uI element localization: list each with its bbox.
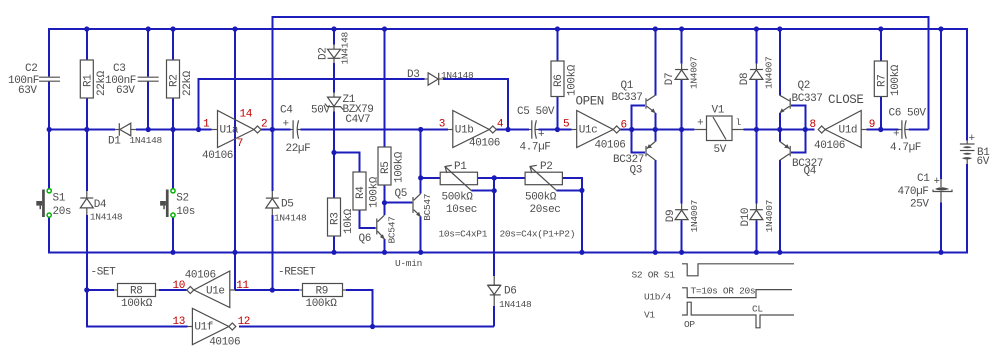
svg-text:S2 OR S1: S2 OR S1 xyxy=(632,270,676,281)
diode D1 xyxy=(108,123,163,147)
capacitor C2 xyxy=(8,63,60,97)
svg-text:OP: OP xyxy=(684,319,695,330)
wire P1 right to node xyxy=(478,177,526,179)
svg-text:100kΩ: 100kΩ xyxy=(306,298,338,310)
diode D4 xyxy=(80,191,123,223)
svg-text:1N4007: 1N4007 xyxy=(764,200,775,232)
transistor Q3 (BC327 PNP) xyxy=(613,142,655,177)
diode D8 xyxy=(739,57,775,89)
wire D6 bottom to U1f row xyxy=(493,306,495,327)
svg-text:D4: D4 xyxy=(94,199,107,211)
svg-text:R1: R1 xyxy=(83,74,95,87)
transistor Q2 (BC337 NPN mirrored) xyxy=(780,80,823,114)
op-amp U1b (40106 inverter) xyxy=(448,111,500,150)
wire top rail A xyxy=(272,17,928,130)
svg-text:22µF: 22µF xyxy=(286,143,311,155)
svg-text:CLOSE: CLOSE xyxy=(828,93,864,107)
svg-text:Q1: Q1 xyxy=(621,80,634,92)
svg-text:6V: 6V xyxy=(977,156,990,168)
svg-text:100kΩ: 100kΩ xyxy=(567,64,579,96)
node P1 right xyxy=(492,175,497,180)
node P1 left xyxy=(418,175,423,180)
svg-text:10s=C4xP1: 10s=C4xP1 xyxy=(439,229,488,240)
capacitor C1 (470uF polarized) xyxy=(898,173,953,211)
diode D6 xyxy=(488,276,532,310)
node RESET D5 xyxy=(270,287,275,292)
diode D7 xyxy=(664,57,700,89)
capacitor C5 (4.7uF polarized) xyxy=(517,106,555,154)
svg-text:5V: 5V xyxy=(714,144,727,156)
wire R9 to U1f out node xyxy=(346,290,373,327)
svg-text:P2: P2 xyxy=(540,161,552,173)
svg-text:+: + xyxy=(969,133,975,145)
svg-text:Q4: Q4 xyxy=(804,166,817,178)
wire R5 supply vertical xyxy=(384,29,386,147)
wire R2 S2 branch xyxy=(172,29,174,60)
svg-text:U1a: U1a xyxy=(220,125,239,137)
capacitor C6 (4.7uF polarized) xyxy=(889,108,927,155)
svg-text:10s: 10s xyxy=(176,206,195,218)
battery B1 xyxy=(960,133,990,168)
trimmer P2 xyxy=(525,161,562,216)
svg-text:1: 1 xyxy=(203,119,210,131)
wire IC supply vertical xyxy=(234,29,236,290)
svg-text:R6: R6 xyxy=(553,75,565,87)
svg-text:-RESET: -RESET xyxy=(278,267,316,279)
node rail B U1 supply xyxy=(232,26,237,31)
resistor R2 xyxy=(167,60,195,98)
node R3 R4 xyxy=(331,150,336,155)
svg-text:V1: V1 xyxy=(644,310,655,321)
resistor R3 xyxy=(328,198,356,236)
svg-text:100kΩ: 100kΩ xyxy=(394,151,406,183)
node rail B C1 xyxy=(938,26,943,31)
svg-text:40106: 40106 xyxy=(469,138,500,150)
svg-text:OPEN: OPEN xyxy=(576,95,604,109)
svg-text:+: + xyxy=(697,118,703,130)
svg-text:C5: C5 xyxy=(517,106,529,118)
wire U1f out row xyxy=(239,326,494,328)
svg-text:BC547: BC547 xyxy=(387,216,398,243)
svg-text:500kΩ: 500kΩ xyxy=(442,192,474,204)
svg-text:1N4007: 1N4007 xyxy=(764,57,775,89)
svg-text:1N4148: 1N4148 xyxy=(441,70,474,81)
node C3 main xyxy=(146,127,151,132)
svg-text:D7: D7 xyxy=(664,73,676,85)
svg-text:4.7µF: 4.7µF xyxy=(890,142,921,154)
svg-text:1N4007: 1N4007 xyxy=(689,200,700,232)
svg-text:C2: C2 xyxy=(25,63,37,75)
svg-text:40106: 40106 xyxy=(814,140,845,152)
wire U1b out to C5 xyxy=(496,129,529,131)
svg-text:C1: C1 xyxy=(917,173,930,185)
node R1 main xyxy=(84,127,89,132)
node rail B D8 xyxy=(754,26,759,31)
svg-text:D8: D8 xyxy=(739,73,751,85)
svg-text:D9: D9 xyxy=(665,210,677,222)
capacitor C3 xyxy=(105,63,159,97)
node R5 Q5 base xyxy=(382,200,387,205)
svg-text:10: 10 xyxy=(173,280,185,292)
wire top rail B xyxy=(49,29,967,141)
wire Q3 collector xyxy=(654,160,656,252)
op-amp U1f (40106 inverter) xyxy=(188,308,241,348)
svg-text:7: 7 xyxy=(237,138,243,150)
svg-text:R7: R7 xyxy=(877,75,889,87)
svg-text:R2: R2 xyxy=(169,75,181,87)
svg-text:63V: 63V xyxy=(18,85,37,97)
svg-text:D3: D3 xyxy=(407,69,419,81)
wire SET row R8 xyxy=(87,289,114,291)
wire P2 right down xyxy=(562,178,582,252)
node ground Q6 xyxy=(382,250,387,255)
wire D8 D10 vertical xyxy=(755,29,757,64)
wire bottom ground rail xyxy=(49,164,967,252)
svg-text:V1: V1 xyxy=(712,105,725,117)
node ground R3 xyxy=(331,250,336,255)
svg-text:10kΩ: 10kΩ xyxy=(343,208,355,234)
node ground Q4 xyxy=(777,250,782,255)
svg-text:l: l xyxy=(736,117,742,128)
svg-text:4.7µF: 4.7µF xyxy=(520,142,551,154)
wire D5 vertical bottom xyxy=(271,215,273,290)
svg-text:1N4148: 1N4148 xyxy=(340,31,351,64)
node ground U1 supply xyxy=(232,250,237,255)
svg-text:40106: 40106 xyxy=(202,150,233,162)
diode D3 xyxy=(407,69,474,85)
svg-text:22kΩ: 22kΩ xyxy=(182,70,194,96)
svg-text:1N4007: 1N4007 xyxy=(689,57,700,89)
resistor R4 xyxy=(353,172,381,210)
svg-text:6: 6 xyxy=(621,120,627,132)
node R6 bottom xyxy=(555,127,560,132)
svg-text:-SET: -SET xyxy=(91,267,117,279)
svg-text:U1e: U1e xyxy=(206,286,225,298)
op-amp U1a (40106 inverter) xyxy=(202,111,261,163)
transistor Q5 (BC547 NPN) xyxy=(395,188,433,221)
capacitor C4 (22uF polarized) xyxy=(280,105,330,156)
node rail B R2 xyxy=(170,26,175,31)
wire P2 wiper xyxy=(557,189,582,191)
wire R4 to Q6 base xyxy=(360,210,376,228)
node D7 D9 xyxy=(679,127,684,132)
node rail B R1 xyxy=(84,26,89,31)
svg-text:U-min: U-min xyxy=(395,258,422,269)
svg-text:11: 11 xyxy=(236,280,249,292)
transistor Q1 (BC337 NPN) xyxy=(612,80,656,114)
node SET R8 xyxy=(84,287,89,292)
op-amp U1c (40106 inverter) xyxy=(572,111,626,152)
node Q1Q3 base xyxy=(629,127,634,132)
wire U1c out to V1 xyxy=(620,129,695,131)
op-amp U1d (40106 inverter mirrored) xyxy=(814,111,867,153)
node rail B Q2 xyxy=(777,26,782,31)
wire feedback row jog xyxy=(199,79,425,130)
svg-text:8: 8 xyxy=(810,119,816,131)
node rail B R5 xyxy=(382,26,387,31)
svg-text:25V: 25V xyxy=(910,199,929,211)
node R7 bottom xyxy=(878,127,883,132)
svg-text:100kΩ: 100kΩ xyxy=(121,298,153,310)
node rail B Q1 xyxy=(653,26,658,31)
node ground P2 xyxy=(579,250,584,255)
svg-text:50V: 50V xyxy=(536,106,555,118)
svg-text:1N4148: 1N4148 xyxy=(274,213,307,224)
svg-text:+: + xyxy=(934,176,940,188)
diode D2 xyxy=(318,31,351,64)
svg-text:40106: 40106 xyxy=(209,337,240,349)
svg-text:100kΩ: 100kΩ xyxy=(890,64,902,96)
svg-text:50V: 50V xyxy=(907,108,926,120)
wire D7 D9 vertical xyxy=(681,29,683,64)
svg-text:40106: 40106 xyxy=(595,140,626,152)
wire SET down to U1f xyxy=(87,290,188,327)
svg-text:10sec: 10sec xyxy=(446,204,477,216)
resistor R8 xyxy=(114,284,159,311)
svg-text:14: 14 xyxy=(240,109,253,121)
svg-text:C4: C4 xyxy=(280,105,293,117)
node rail B R7 xyxy=(878,26,883,31)
svg-text:+: + xyxy=(283,119,289,131)
wire U1a out to C4 xyxy=(261,129,291,131)
node pin3 P1 branch xyxy=(418,127,423,132)
svg-text:40106: 40106 xyxy=(185,270,216,282)
svg-text:+: + xyxy=(893,129,899,141)
svg-text:R8: R8 xyxy=(130,286,142,298)
svg-text:2: 2 xyxy=(261,119,267,131)
svg-text:1N4148: 1N4148 xyxy=(90,212,123,223)
zener Z1 xyxy=(325,93,374,127)
svg-text:470µF: 470µF xyxy=(898,186,929,198)
svg-text:+: + xyxy=(538,129,544,141)
svg-text:C4V7: C4V7 xyxy=(345,114,370,126)
wire D6 vertical xyxy=(493,178,495,276)
wire C4 to U1b in xyxy=(301,129,449,131)
resistor R1 xyxy=(80,60,108,98)
node rail B R6 xyxy=(555,26,560,31)
transistor Q4 (BC327 PNP mirrored) xyxy=(780,142,823,178)
node C2 main xyxy=(47,127,52,132)
svg-text:P1: P1 xyxy=(454,161,467,173)
wire Q2 Q4 base jog xyxy=(791,106,805,153)
node ground S2 xyxy=(170,250,175,255)
wire C1 vertical xyxy=(940,29,942,179)
resistor R5 xyxy=(378,147,406,185)
svg-text:CL: CL xyxy=(752,304,763,315)
svg-text:R4: R4 xyxy=(355,186,367,199)
wire R6 vertical xyxy=(556,29,558,61)
node rail B D2 xyxy=(331,26,336,31)
node U1a out xyxy=(270,127,275,132)
svg-text:R5: R5 xyxy=(380,162,392,174)
node P2 wiper xyxy=(579,188,584,193)
wire Q1 Q3 base jog xyxy=(632,106,646,153)
wire main row net D1 to U1a xyxy=(136,129,212,131)
svg-text:Q3: Q3 xyxy=(630,165,642,177)
svg-text:D2: D2 xyxy=(318,48,330,60)
waveform V1 xyxy=(682,302,794,328)
svg-text:1N4148: 1N4148 xyxy=(130,135,163,146)
svg-text:C3: C3 xyxy=(113,63,125,75)
svg-text:U1b/4: U1b/4 xyxy=(644,292,672,303)
diode D9 xyxy=(665,200,700,232)
svg-text:3: 3 xyxy=(439,119,445,131)
svg-text:4: 4 xyxy=(497,119,504,131)
node R2 main xyxy=(170,127,175,132)
svg-text:1N4148: 1N4148 xyxy=(499,299,532,310)
wire main row net pin1 xyxy=(49,129,115,131)
wire Q4 collector xyxy=(779,160,781,252)
node D8 D10 xyxy=(754,127,759,132)
node Q2Q4 base xyxy=(803,127,808,132)
node rail B C3 xyxy=(146,26,151,31)
node jog main xyxy=(196,127,201,132)
wire Q2 Q4 emitters xyxy=(779,113,781,142)
svg-text:C6: C6 xyxy=(889,108,901,120)
node Q1Q3 emitters xyxy=(653,127,658,132)
svg-text:U1f: U1f xyxy=(194,322,213,334)
resistor R7 xyxy=(874,61,902,97)
svg-text:20s=C4x(P1+P2): 20s=C4x(P1+P2) xyxy=(500,229,576,240)
svg-text:20sec: 20sec xyxy=(530,204,561,216)
node R9 U1f xyxy=(370,324,375,329)
switch S1 xyxy=(36,189,71,218)
wire Q2 collector xyxy=(779,29,781,95)
wire C2 branch xyxy=(48,82,50,191)
wire Q1 emitter xyxy=(654,113,656,130)
wire P1 wiper xyxy=(472,190,495,192)
svg-text:U1b: U1b xyxy=(455,125,474,137)
svg-text:9: 9 xyxy=(869,119,875,131)
node ground Q5 xyxy=(418,250,423,255)
svg-text:D5: D5 xyxy=(281,199,293,211)
transistor Q6 (BC547 NPN) xyxy=(359,215,398,245)
wire P1 left xyxy=(421,177,441,179)
wire R5 to Q5 base node xyxy=(384,185,386,215)
wire feedback row D3 cathode to pin4 xyxy=(443,79,508,130)
svg-text:Q6: Q6 xyxy=(359,233,371,245)
node ground Q3 xyxy=(653,250,658,255)
svg-text:12: 12 xyxy=(238,316,250,328)
svg-text:BC547: BC547 xyxy=(422,194,433,221)
svg-text:S1: S1 xyxy=(53,193,66,205)
svg-text:U1d: U1d xyxy=(839,125,858,137)
wire U1d out to C6 xyxy=(867,129,899,131)
wire D4 to SET row xyxy=(86,215,88,290)
wire C5 to U1c in xyxy=(539,129,572,131)
svg-text:D6: D6 xyxy=(504,286,516,298)
node ground C1 xyxy=(938,250,943,255)
wire node to Q5 base xyxy=(385,202,412,204)
svg-text:Q2: Q2 xyxy=(798,80,810,92)
op-amp U1e (40106 inverter mirrored) xyxy=(185,270,235,308)
wire Q3 emitter xyxy=(654,130,656,142)
diode D5 xyxy=(266,191,307,224)
wire D5 vertical top xyxy=(271,130,273,192)
svg-text:S2: S2 xyxy=(176,193,188,205)
node ground D9 xyxy=(679,250,684,255)
wire R3 node to R4 xyxy=(334,153,360,173)
svg-text:D10: D10 xyxy=(740,208,752,227)
svg-text:R3: R3 xyxy=(330,213,342,225)
node ground D10 xyxy=(754,250,759,255)
relay V1 xyxy=(695,105,744,157)
wire V1 to U1d in xyxy=(744,129,815,131)
svg-text:BC337: BC337 xyxy=(792,93,823,105)
svg-text:T=10s OR 20s: T=10s OR 20s xyxy=(691,286,756,297)
svg-text:63V: 63V xyxy=(116,85,135,97)
svg-text:13: 13 xyxy=(173,316,185,328)
diode D10 xyxy=(740,200,775,232)
wire C3 branch xyxy=(147,29,149,77)
svg-text:500kΩ: 500kΩ xyxy=(525,192,557,204)
trimmer P1 xyxy=(440,161,477,216)
resistor R6 xyxy=(551,61,579,97)
svg-text:5: 5 xyxy=(563,119,569,131)
wire Q5 emitter to rail xyxy=(420,217,422,253)
svg-text:D1: D1 xyxy=(108,136,121,148)
wire R1 D4 branch xyxy=(86,29,88,60)
node rail B D7 xyxy=(679,26,684,31)
waveform U1b/4 xyxy=(682,288,792,298)
wire C6 to rail A xyxy=(908,129,928,131)
wire R7 vertical xyxy=(880,29,882,61)
svg-text:Q5: Q5 xyxy=(395,188,407,200)
wire RESET row to R9 xyxy=(272,289,299,291)
switch S2 xyxy=(160,189,195,218)
node P1 wiper xyxy=(492,188,497,193)
wire Q1 collector xyxy=(654,29,656,95)
wire Q5 collector vertical xyxy=(420,130,422,194)
node Q2Q4 emitters xyxy=(777,127,782,132)
wire U1e pin11 to RESET xyxy=(235,289,299,291)
svg-text:U1c: U1c xyxy=(579,125,598,137)
svg-text:R9: R9 xyxy=(316,286,328,298)
node pin4 xyxy=(505,127,510,132)
wire Q6 emitter to rail xyxy=(384,239,386,252)
svg-text:BC337: BC337 xyxy=(612,92,643,104)
wire D2 Z1 R3 vertical xyxy=(333,29,335,45)
svg-text:20s: 20s xyxy=(53,206,72,218)
waveform S2 OR S1 xyxy=(682,264,794,276)
resistor R9 xyxy=(299,284,346,311)
